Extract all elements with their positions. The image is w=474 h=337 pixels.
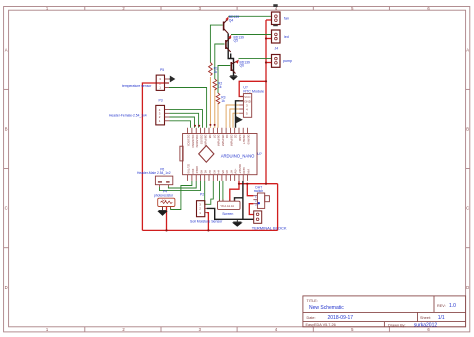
- svg-text:1k: 1k: [214, 70, 218, 74]
- transistor Q5 BD139: [226, 37, 231, 52]
- junction at arduino pin D9: [198, 125, 200, 127]
- svg-text:D7: D7: [212, 135, 216, 139]
- wire soil pin3 a: [205, 181, 207, 204]
- wire RTC pin5: [233, 113, 239, 128]
- junction at arduino pin D10: [194, 125, 196, 127]
- connector P5 temperature sensor: [122, 68, 169, 91]
- svg-text:U?: U?: [257, 152, 262, 156]
- svg-text:D2: D2: [234, 135, 238, 139]
- wire photoresistor to arduino A-pin: [171, 181, 192, 210]
- DHT switch SW1: [253, 185, 269, 208]
- IC U? ARDUINO_NANO: [180, 134, 262, 175]
- svg-text:AREF: AREF: [195, 166, 199, 174]
- junction +5V pin branch: [238, 183, 240, 185]
- svg-text:D: D: [466, 285, 469, 290]
- svg-text:A: A: [5, 47, 8, 52]
- junction at pump connector feed: [265, 61, 267, 63]
- svg-text:D5/PWM: D5/PWM: [221, 135, 225, 147]
- svg-text:RESET: RESET: [242, 135, 246, 145]
- svg-text:1k: 1k: [221, 99, 225, 103]
- wire RTC pin4: [230, 109, 239, 128]
- svg-text:ARDUINO_NANO: ARDUINO_NANO: [221, 153, 255, 158]
- wire screen pin2: [222, 181, 224, 201]
- wire Q5 emitter down: [230, 54, 232, 59]
- svg-text:D12/MISO: D12/MISO: [191, 135, 195, 149]
- svg-text:B: B: [466, 127, 469, 132]
- usb connector rect: [180, 146, 183, 161]
- svg-text:P5: P5: [160, 68, 164, 72]
- svg-text:B: B: [5, 127, 8, 132]
- wire P6 left pin: [160, 181, 201, 191]
- power flag on top frame: [273, 4, 277, 7]
- svg-text:D4: D4: [225, 135, 229, 139]
- svg-text:Q4: Q4: [229, 19, 234, 23]
- svg-text:RTC Module: RTC Module: [243, 89, 264, 93]
- svg-text:A7: A7: [229, 170, 233, 174]
- wire Q4 collector to fan: [228, 15, 271, 17]
- wire Q6 collector to pump: [239, 57, 272, 59]
- svg-text:D0/RX0: D0/RX0: [247, 135, 251, 145]
- svg-text:VIN: VIN: [247, 169, 251, 174]
- resistor R1: [209, 63, 213, 76]
- resistor R2: [213, 79, 217, 90]
- wire soil sensor drop: [207, 213, 209, 231]
- svg-text:switch: switch: [254, 189, 263, 193]
- svg-text:Sheet:: Sheet:: [420, 316, 431, 320]
- svg-text:D11/MOSI: D11/MOSI: [195, 135, 199, 148]
- wire P3 pin2: [170, 117, 195, 128]
- wire connector bus vertical: [265, 20, 267, 184]
- wire pump stub: [266, 62, 272, 64]
- wire soil pin3 b: [207, 181, 214, 204]
- arduino pin stubs top: [188, 128, 248, 134]
- svg-text:Screen: Screen: [222, 212, 233, 216]
- svg-text:Header-Male 2.54_1x2: Header-Male 2.54_1x2: [137, 171, 171, 175]
- connector P2 soil moisture sensor: [190, 192, 223, 223]
- connector P3 Header-Female-2.54_1x4: [109, 99, 170, 125]
- svg-text:TITLE:: TITLE:: [307, 299, 318, 303]
- wire switch pin1 feed: [247, 184, 253, 196]
- ground below arduino gnd: [233, 219, 241, 226]
- wire P3 pin3: [170, 113, 199, 128]
- svg-text:GND: GND: [242, 167, 246, 173]
- net GND (black wiring): [207, 34, 254, 220]
- svg-text:REV:: REV:: [437, 304, 446, 308]
- junction soil sensor to +5V bus: [207, 229, 209, 231]
- transistor Q4 BD139: [224, 19, 229, 34]
- frame ruler ticks sides: [4, 89, 470, 247]
- svg-text:GND: GND: [238, 135, 242, 141]
- arrow flag on RTC GND wire: [236, 117, 242, 123]
- svg-text:2018-09-17: 2018-09-17: [328, 315, 354, 321]
- wire right vertical: [277, 184, 279, 231]
- svg-text:A2: A2: [208, 170, 212, 174]
- svg-text:Header-Female-2.54_1x4: Header-Female-2.54_1x4: [109, 114, 147, 118]
- arduino pin labels bottom band: [187, 164, 251, 174]
- svg-text:P2: P2: [200, 192, 204, 196]
- wire soil pin2: [207, 208, 254, 219]
- svg-text:C: C: [466, 206, 469, 211]
- connector J fan: [272, 12, 290, 26]
- junction at arduino pin D7: [214, 124, 216, 126]
- screen (OLED): [218, 199, 241, 216]
- wire led stub: [266, 38, 272, 40]
- wire photoresistor drop: [166, 207, 168, 231]
- svg-text:J4: J4: [275, 47, 279, 51]
- wire bottom bus: [142, 229, 277, 231]
- title block: [303, 296, 466, 327]
- connector P6 Header-Male 2.54_1x2: [137, 167, 173, 187]
- wire P5 pin1 to arduino: [169, 88, 207, 128]
- svg-text:1k: 1k: [218, 85, 222, 89]
- wire R2 bottom to D-pin: [214, 89, 216, 128]
- svg-text:D13/SCK: D13/SCK: [187, 135, 191, 147]
- logo diamond: [199, 146, 214, 163]
- wire fan stub: [266, 19, 272, 21]
- connector J pump: [272, 47, 293, 68]
- arrow flag at P5 pin3: [169, 76, 175, 81]
- signal wires (orange): [210, 77, 239, 128]
- junction at RTC VCC tap: [265, 80, 267, 82]
- ruler numbers top: [46, 6, 431, 332]
- wire +5V pin drop: [230, 181, 239, 201]
- svg-text:A6: A6: [225, 170, 229, 174]
- wire R1 to Q4 base: [210, 25, 222, 62]
- svg-text:pump: pump: [283, 59, 292, 63]
- wire R1 bottom to D-pin: [209, 77, 211, 128]
- svg-text:A0: A0: [200, 170, 204, 174]
- svg-text:A: A: [466, 47, 469, 52]
- photoresistor P4: [154, 190, 175, 210]
- svg-text:D1/TX0: D1/TX0: [187, 164, 191, 174]
- svg-text:D10/SS: D10/SS: [200, 135, 204, 145]
- wire screen pin1: [219, 181, 221, 201]
- junction at arduino pin D8: [209, 124, 211, 126]
- arduino pin labels top band: [187, 135, 251, 149]
- svg-text:P3: P3: [159, 99, 163, 103]
- svg-text:D9/PWM: D9/PWM: [204, 135, 208, 147]
- svg-text:D: D: [5, 285, 8, 290]
- wire RTC GND to arduino: [236, 101, 244, 128]
- svg-text:D8: D8: [208, 135, 212, 139]
- svg-text:surka2012: surka2012: [414, 322, 438, 328]
- svg-text:led: led: [284, 35, 289, 39]
- svg-text:Y8.A.A1.JA: Y8.A.A1.JA: [220, 204, 234, 208]
- wire R3 to Q6 base: [218, 66, 230, 94]
- RTC module U?: [239, 86, 264, 118]
- svg-text:New Schematic: New Schematic: [309, 305, 344, 311]
- connector J led: [272, 30, 289, 43]
- wire mid horizontal: [239, 183, 278, 185]
- wire P6 right pin: [168, 181, 196, 188]
- junction switch feed branch: [246, 183, 248, 185]
- wire left vertical from temperature sensor: [142, 83, 169, 230]
- wire P3 pin1: [170, 121, 191, 128]
- junction at +5V ring corner: [265, 183, 267, 185]
- wire P3 pin4: [170, 110, 203, 128]
- ground below photoresistor: [159, 207, 167, 216]
- terminal block: [252, 211, 287, 231]
- wire Q4 emitter down: [228, 34, 233, 76]
- svg-text:EasyEDA V5.7.26: EasyEDA V5.7.26: [306, 323, 336, 327]
- transistor Q6 BD139: [231, 60, 238, 73]
- junction photoresistor to +5V bus: [165, 229, 167, 231]
- svg-text:Date:: Date:: [307, 316, 316, 320]
- svg-text:Drawn By:: Drawn By:: [388, 323, 406, 327]
- arduino pin stubs bottom: [188, 175, 248, 181]
- svg-text:D6/PWM: D6/PWM: [217, 135, 221, 147]
- svg-text:D3/PWM: D3/PWM: [229, 135, 233, 147]
- wire R3 bottom to D-pin: [217, 103, 219, 128]
- svg-text:temperature sensor: temperature sensor: [122, 84, 152, 88]
- ruler letters sides: [5, 47, 470, 289]
- svg-text:A3: A3: [212, 170, 216, 174]
- svg-text:fan: fan: [284, 16, 289, 20]
- wire R2 to Q5 base: [215, 44, 225, 79]
- junction at led connector feed: [265, 37, 267, 39]
- wire screen pin4 gnd: [235, 198, 243, 201]
- net +5V (red wiring): [142, 20, 277, 230]
- svg-text:1.0: 1.0: [449, 303, 456, 309]
- svg-text:Soil Moisture Sensor: Soil Moisture Sensor: [190, 220, 223, 224]
- resistor R3: [216, 93, 220, 104]
- svg-text:photoresistor: photoresistor: [154, 193, 174, 197]
- svg-text:Q5: Q5: [234, 39, 239, 43]
- svg-text:A4: A4: [217, 170, 221, 174]
- svg-text:A5: A5: [221, 170, 225, 174]
- svg-text:TERMINAL BLOCK: TERMINAL BLOCK: [252, 226, 287, 231]
- wire Q5 collector to led: [231, 34, 272, 36]
- wire switch pin3 to terminal: [249, 204, 253, 215]
- svg-text:+5V: +5V: [234, 169, 238, 174]
- signal wires (green): [160, 16, 272, 209]
- wire arduino GND pin down: [242, 181, 244, 219]
- ground below Q6: [230, 76, 237, 80]
- svg-text:3V3: 3V3: [191, 169, 195, 174]
- svg-text:1/1: 1/1: [438, 315, 445, 321]
- svg-text:C: C: [5, 206, 8, 211]
- wire RTC VCC feed: [239, 81, 266, 96]
- frame ruler ticks top/bottom: [85, 7, 390, 332]
- svg-text:Q6: Q6: [240, 64, 245, 68]
- svg-text:RESET: RESET: [238, 164, 242, 174]
- svg-text:A1: A1: [204, 170, 208, 174]
- wire RTC pin3: [226, 105, 239, 128]
